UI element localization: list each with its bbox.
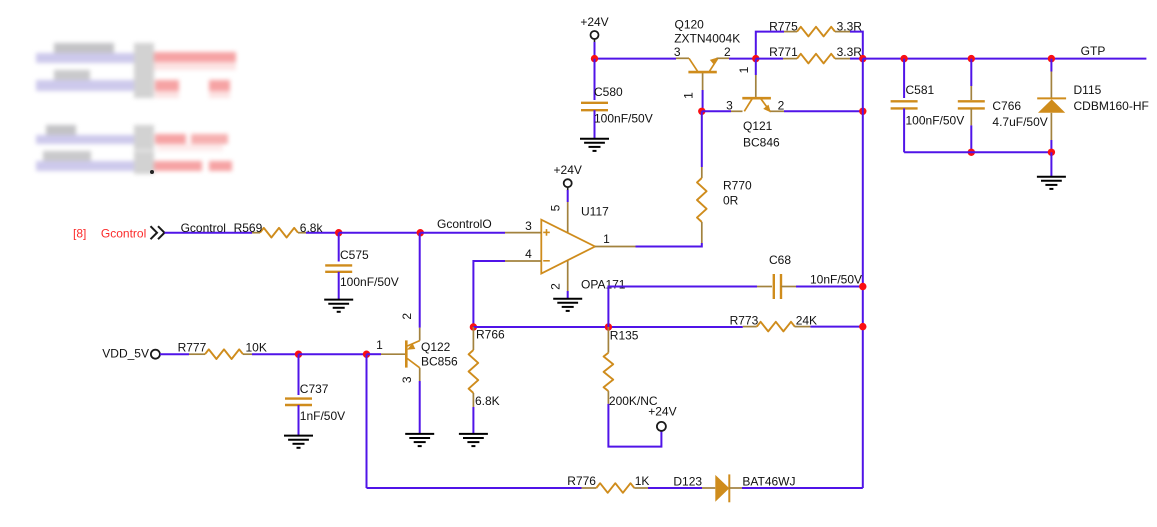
svg-text:CDBM160-HF: CDBM160-HF	[1074, 99, 1149, 113]
wire node to Q122 node	[299, 353, 367, 355]
redacted text block top-left	[0, 0, 260, 190]
svg-text:4: 4	[525, 247, 532, 261]
ground below Q122	[405, 434, 434, 446]
junction GTP/C581	[900, 55, 907, 62]
svg-text:C581: C581	[906, 83, 935, 97]
wire R135 to +24V port	[608, 404, 661, 447]
svg-text:GTP: GTP	[1081, 44, 1106, 58]
wire R776 to D123	[648, 487, 702, 489]
wire +24V to pin5	[567, 190, 569, 202]
diode D123 BAT46WJ	[702, 487, 715, 489]
wire R770 to opamp output	[636, 243, 702, 247]
resistor R569 lead left	[252, 232, 260, 234]
svg-text:Q121: Q121	[743, 119, 773, 133]
svg-text:5: 5	[549, 204, 563, 211]
svg-text:BAT46WJ: BAT46WJ	[742, 474, 795, 488]
ground below R766	[459, 434, 488, 446]
wire Q120 pin1 down	[702, 90, 704, 111]
svg-text:R777: R777	[178, 341, 207, 355]
junction rail/R135/C68	[605, 323, 612, 330]
svg-text:C580: C580	[594, 85, 623, 99]
wire node up to R775	[756, 32, 784, 59]
resistor R135 lead top	[607, 327, 609, 353]
svg-text:1K: 1K	[635, 474, 650, 488]
wire mid rail	[473, 326, 742, 328]
svg-text:1: 1	[603, 232, 610, 246]
resistor R776 lead right	[634, 487, 648, 489]
power +24V port (op-amp)	[564, 179, 572, 187]
resistor R766 lead top	[472, 327, 474, 350]
svg-text:100nF/50V: 100nF/50V	[594, 112, 653, 126]
wire R773 to right rail	[810, 326, 862, 328]
port VDD_5V	[151, 350, 160, 359]
capacitor C68 lead left	[757, 286, 772, 288]
wire R775 to right node	[850, 32, 863, 59]
svg-text:D123: D123	[673, 474, 702, 488]
wire Q121 pin3 to node	[702, 110, 731, 112]
svg-text:Gcontrol: Gcontrol	[101, 226, 146, 240]
svg-text:3: 3	[400, 376, 414, 383]
resistor R569 lead right	[298, 232, 306, 234]
svg-text:R776: R776	[567, 474, 596, 488]
junction D115/bottom rail	[1048, 149, 1055, 156]
svg-text:C68: C68	[769, 253, 791, 267]
diode D115 CDBM160-HF	[1050, 59, 1052, 72]
junction Q120 base node	[698, 108, 705, 115]
junction R771/R775/GTP	[859, 55, 866, 62]
wire C581 down	[903, 108, 905, 152]
svg-text:BC856: BC856	[421, 355, 458, 369]
junction R773/right rail	[859, 323, 866, 330]
junction C68/right rail	[859, 283, 866, 290]
resistor R775	[797, 27, 835, 37]
op-amp U117 triangle	[541, 220, 595, 274]
svg-text:4.7uF/50V: 4.7uF/50V	[992, 115, 1047, 129]
capacitor C766 plates	[958, 101, 985, 108]
capacitor C766 lead top	[970, 86, 972, 100]
resistor R135	[604, 353, 614, 391]
transistor Q121 BC846	[731, 75, 784, 111]
op-amp U117 pin3 lead	[505, 232, 541, 234]
wire Q122 node down to bottom rail	[366, 354, 368, 488]
resistor R771	[797, 54, 835, 64]
svg-text:1: 1	[682, 92, 696, 99]
junction R569/C575	[335, 229, 342, 236]
resistor R766	[469, 350, 479, 393]
wire GTP to C581	[903, 59, 905, 98]
wire R766 to ground	[472, 407, 474, 434]
resistor R771 lead left	[783, 58, 797, 60]
wire node to C737	[298, 354, 300, 395]
ground below C575	[324, 300, 353, 312]
ground below C580	[580, 139, 609, 151]
svg-text:D115: D115	[1074, 83, 1102, 97]
wire C68 to right rail	[796, 286, 863, 288]
resistor R766 lead bottom	[472, 393, 474, 407]
capacitor C575 plates	[325, 265, 352, 271]
svg-text:[8]: [8]	[73, 226, 86, 240]
svg-text:10K: 10K	[246, 341, 267, 355]
svg-text:R766: R766	[476, 328, 505, 342]
op-amp U117 pin5 lead	[567, 202, 569, 233]
svg-text:24K: 24K	[796, 313, 817, 327]
transistor Q122 BC856	[381, 328, 420, 381]
junction Q122 base node	[363, 351, 370, 358]
wire Q121 pin2 to right rail	[784, 110, 863, 112]
wire GcontrolO to pin3	[420, 232, 505, 234]
wire +24V down to node	[594, 42, 596, 59]
capacitor C737 plates	[285, 399, 312, 405]
svg-text:R773: R773	[730, 313, 759, 327]
svg-text:3.3R: 3.3R	[837, 45, 863, 59]
junction R777/C737	[295, 351, 302, 358]
svg-text:10nF/50V: 10nF/50V	[810, 273, 862, 287]
resistor R775 lead left	[784, 31, 797, 33]
svg-text:1: 1	[737, 66, 751, 73]
wire R569 to C575 node	[306, 232, 339, 234]
wire R777 to C737 node	[252, 353, 299, 355]
ground below D115	[1037, 177, 1066, 189]
wire Q120 pin2 to node	[729, 58, 756, 60]
svg-text:3.3R: 3.3R	[837, 20, 863, 34]
resistor R777 lead left	[189, 353, 205, 355]
resistor R773 lead left	[743, 326, 757, 328]
wire bottom rail to R776	[367, 487, 582, 489]
svg-text:3: 3	[674, 45, 681, 59]
resistor R569	[260, 228, 298, 238]
resistor R135 lead bottom	[607, 391, 609, 404]
capacitor C581 plates	[891, 101, 918, 108]
wire node to Q122 pin1	[367, 353, 382, 355]
svg-text:0R: 0R	[723, 193, 739, 207]
wire node to Q120 pin3	[595, 58, 677, 60]
wire C737 to ground	[298, 405, 300, 436]
svg-text:1nF/50V: 1nF/50V	[300, 409, 345, 423]
ground below C737	[284, 436, 313, 448]
svg-text:OPA171: OPA171	[581, 277, 626, 291]
wire node to C575	[338, 233, 340, 262]
wire capacitor bottom rail	[904, 151, 1051, 153]
svg-text:VDD_5V: VDD_5V	[102, 347, 149, 361]
capacitor C68 lead right	[781, 286, 796, 288]
resistor R773	[757, 322, 795, 332]
wire C575 to ground	[338, 272, 340, 300]
wire GTP to C766	[970, 59, 972, 86]
ground below op-amp	[553, 299, 582, 311]
wire R771 to right node	[850, 58, 863, 60]
svg-text:GcontrolO: GcontrolO	[437, 217, 492, 231]
junction C766/bottom rail	[968, 149, 975, 156]
svg-text:2: 2	[549, 283, 563, 290]
resistor R773 lead right	[795, 326, 811, 328]
svg-text:6.8K: 6.8K	[475, 394, 500, 408]
resistor R777	[205, 349, 243, 359]
svg-text:2: 2	[778, 98, 785, 112]
svg-text:C737: C737	[300, 382, 329, 396]
junction GTP/D115	[1048, 55, 1055, 62]
svg-text:100nF/50V: 100nF/50V	[906, 114, 965, 128]
svg-text:3: 3	[726, 98, 733, 112]
junction GTP/C766	[968, 55, 975, 62]
power +24V port (R135)	[657, 422, 666, 431]
capacitor C766 lead bottom	[970, 108, 972, 125]
svg-text:200K/NC: 200K/NC	[609, 394, 658, 408]
junction pin4/R766/rail	[470, 323, 477, 330]
capacitor C580 plates	[581, 103, 608, 110]
svg-text:U117: U117	[581, 204, 609, 218]
capacitor C68 plates	[774, 274, 781, 299]
resistor R771 lead right	[835, 58, 850, 60]
svg-text:BC846: BC846	[743, 135, 780, 149]
wire right vertical rail	[862, 59, 864, 488]
wire pin4 down to rail	[473, 261, 505, 327]
resistor R770 lead top	[701, 167, 703, 178]
power +24V port (top)	[591, 31, 599, 39]
svg-text:Q120: Q120	[675, 18, 705, 32]
junction Q121 pin2/right rail	[859, 108, 866, 115]
wire D123 to right rail	[742, 487, 863, 489]
wire VDD_5V to R777	[160, 353, 189, 355]
wire C580 to ground	[594, 110, 596, 139]
port Gcontrol chevron	[151, 226, 165, 239]
svg-text:C766: C766	[992, 99, 1021, 113]
svg-text:6.8k: 6.8k	[300, 221, 324, 235]
resistor R776 lead left	[582, 487, 597, 489]
junction GcontrolO	[417, 229, 424, 236]
wire Q122 pin3 to ground	[419, 381, 421, 434]
wire GTP rail	[863, 58, 1147, 60]
svg-text:+24V: +24V	[554, 163, 582, 177]
wire C766 down	[970, 125, 972, 152]
wire node to R771	[756, 58, 783, 60]
svg-text:C575: C575	[340, 248, 369, 262]
resistor R777 lead right	[243, 353, 252, 355]
wire pin2 to ground	[567, 291, 569, 299]
resistor R770	[697, 178, 707, 222]
resistor R775 lead right	[835, 31, 850, 33]
svg-text:R775: R775	[769, 20, 798, 34]
transistor Q120 ZXTN4004K	[676, 58, 729, 90]
wire port to R569	[165, 232, 253, 234]
op-amp U117 output lead	[595, 246, 636, 248]
wire rail up to C68	[608, 287, 757, 328]
junction +24V/C580	[591, 55, 598, 62]
wire D115 to bottom rail	[1050, 140, 1052, 152]
svg-text:+24V: +24V	[580, 15, 608, 29]
svg-text:R569: R569	[234, 221, 263, 235]
wire Q122 pin2 up to GcontrolO	[419, 233, 421, 328]
svg-text:2: 2	[400, 313, 414, 320]
svg-text:R770: R770	[723, 178, 752, 192]
svg-text:ZXTN4004K: ZXTN4004K	[674, 31, 740, 45]
resistor R776	[596, 483, 634, 493]
wire node to C580	[594, 59, 596, 100]
svg-text:2: 2	[724, 45, 731, 59]
junction Q120/Q121/R771 node	[752, 55, 759, 62]
op-amp U117 pin4 lead	[505, 260, 541, 262]
wire node down to Q121 pin1	[755, 59, 757, 75]
svg-text:100nF/50V: 100nF/50V	[340, 275, 399, 289]
svg-text:3: 3	[525, 219, 532, 233]
svg-text:Q122: Q122	[421, 340, 451, 354]
svg-text:R771: R771	[769, 45, 798, 59]
wire bottom rail to ground	[1050, 152, 1052, 176]
svg-text:R135: R135	[610, 328, 639, 342]
wire node to GcontrolO node	[339, 232, 421, 234]
wire node to R770	[701, 111, 703, 167]
svg-text:Gcontrol: Gcontrol	[181, 221, 226, 235]
resistor R770 lead bottom	[701, 222, 703, 243]
svg-text:1: 1	[376, 338, 383, 352]
op-amp U117 pin2 lead	[567, 260, 569, 291]
